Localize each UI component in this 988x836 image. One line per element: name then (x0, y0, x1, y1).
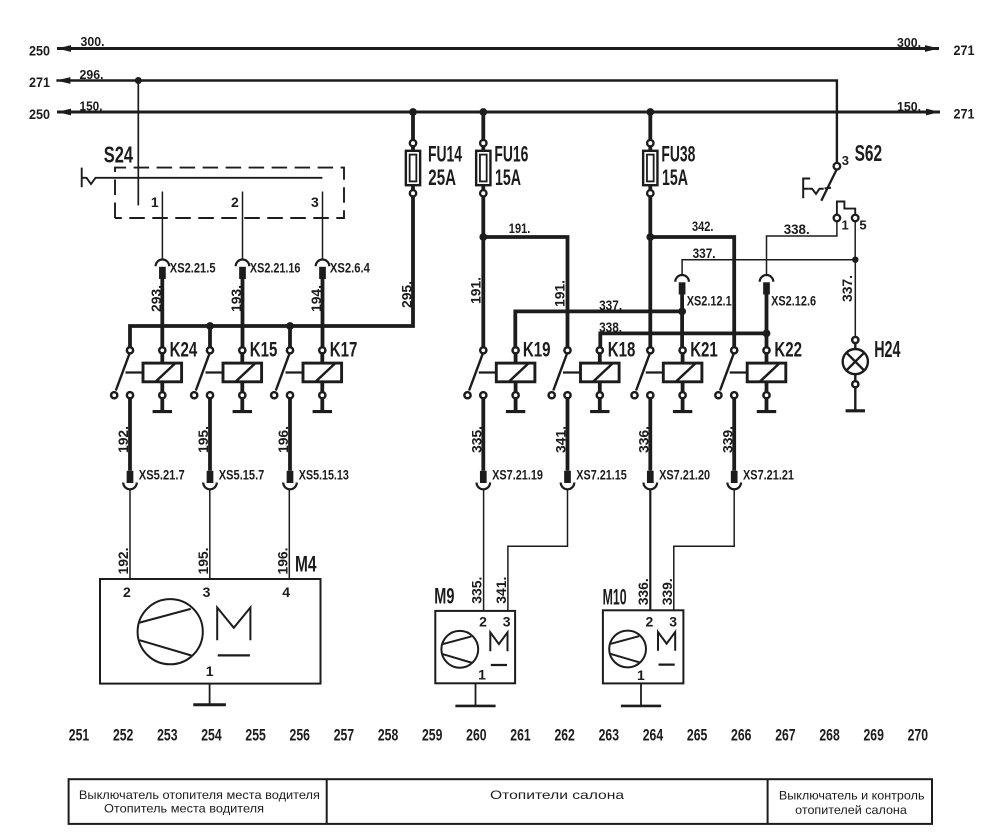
relay K19 (464, 347, 534, 398)
label wire 335. (468, 426, 484, 453)
wire 341 (relay output) (566, 398, 570, 470)
svg-text:S24: S24 (104, 141, 133, 167)
label pin 1 of M4 (206, 663, 214, 679)
switch S62 common bracket (837, 202, 855, 215)
label wire 339. (at M10) (659, 578, 675, 605)
legend cell 3 text (779, 788, 925, 817)
svg-text:K22: K22 (774, 338, 802, 361)
junction 338 bus at XS2.12.6 (763, 330, 771, 338)
svg-text:Выключатель и контроль: Выключатель и контроль (779, 788, 925, 802)
svg-text:335.: 335. (469, 577, 485, 604)
svg-text:300.: 300. (81, 34, 105, 49)
label S24 (104, 141, 133, 167)
svg-text:M4: M4 (295, 552, 317, 577)
svg-text:K15: K15 (250, 338, 278, 361)
svg-text:266: 266 (731, 726, 751, 745)
ground (below M9) (455, 683, 495, 706)
fuse FU16 (476, 112, 490, 197)
label pin 1 of S62 (842, 218, 849, 233)
svg-text:M10: M10 (603, 584, 627, 609)
wire 339 (relay output) (732, 398, 736, 470)
ground (below K22 coil) (757, 398, 776, 411)
label wire 337. (horizontal thin) (693, 246, 716, 261)
svg-text:337.: 337. (693, 246, 716, 261)
svg-text:255: 255 (245, 726, 265, 745)
wire 335 (XS7.21.19 to M9 pin2) (483, 490, 485, 611)
wire 335 (relay output) (481, 398, 485, 470)
label H24 (874, 336, 900, 362)
motor M9 (cabin heater blower) (435, 611, 515, 683)
svg-text:259: 259 (422, 726, 442, 745)
label pin 3 of M9 (503, 614, 511, 630)
ground (below K17 coil) (313, 398, 332, 411)
switch S24 pin 3 (322, 192, 324, 260)
svg-text:Отопители салона: Отопители салона (490, 788, 624, 802)
node scale row 251-270 (69, 726, 928, 745)
label wire 192. (115, 426, 131, 453)
svg-text:XS7.21.15: XS7.21.15 (576, 467, 627, 483)
switch S62 pin 1 terminal (834, 215, 841, 222)
ground (below K21 coil) (673, 398, 692, 411)
svg-text:XS2.21.16: XS2.21.16 (250, 259, 301, 275)
svg-text:196.: 196. (274, 548, 290, 575)
junction FU16/191 (479, 233, 487, 241)
svg-text:264: 264 (643, 726, 664, 745)
label 15A (FU38 rating) (662, 165, 688, 190)
wire bus 296 (net 271 to S62) (56, 77, 837, 163)
ground (below lamp H24) (846, 387, 865, 410)
label wire 337. (vertical at H24) (839, 275, 855, 302)
svg-text:S62: S62 (855, 140, 883, 166)
svg-text:195.: 195. (195, 426, 211, 453)
label S62 (855, 140, 883, 166)
relay K15 (191, 347, 262, 398)
label 271 (left end of bus 296) (29, 74, 50, 90)
svg-text:256: 256 (290, 726, 310, 745)
label M10 (603, 584, 627, 609)
svg-text:2: 2 (646, 614, 654, 630)
label pin 3 of S62 (842, 153, 849, 168)
wire 337 (XS2.12.1 to K19/K21 coils) (515, 295, 682, 348)
label pin 1 of M10 (637, 667, 645, 683)
svg-text:265: 265 (687, 726, 707, 745)
svg-text:XS5.21.7: XS5.21.7 (139, 467, 185, 483)
connector XS2.21.16 (236, 259, 250, 279)
junction on bus 150 at FU16 (479, 108, 487, 116)
wire 196 (XS5.15.13 to M4 pin4) (288, 490, 290, 580)
svg-text:2: 2 (231, 194, 239, 210)
wire 191 branch to K18 contact (483, 237, 567, 347)
label XS5.21.7 (139, 467, 185, 483)
svg-text:341.: 341. (553, 426, 569, 453)
label XS2.21.5 (170, 259, 216, 275)
svg-text:263: 263 (599, 726, 619, 745)
wire 196 (relay output) (288, 398, 292, 470)
label wire number 150. right (897, 99, 921, 114)
label wire 339. (719, 426, 735, 453)
wire 191 (FU16 to K19 contact) (481, 197, 485, 348)
legend table frame (69, 779, 932, 824)
label 271 (right end of bus 300) (954, 42, 975, 58)
wire 195 (relay output) (208, 398, 212, 470)
svg-text:XS5.15.13: XS5.15.13 (299, 467, 349, 483)
connector XS2.6.4 (316, 259, 330, 279)
ground (below M4) (193, 684, 226, 705)
svg-text:267: 267 (775, 726, 795, 745)
switch S24 pin 1 (161, 192, 163, 260)
label M9 (434, 583, 454, 608)
svg-text:268: 268 (819, 726, 839, 745)
label wire 293. (148, 285, 164, 312)
wire feed stub K15 contact (208, 326, 212, 347)
svg-text:262: 262 (554, 726, 574, 745)
label wire 193. (228, 285, 244, 312)
svg-text:XS2.12.1: XS2.12.1 (687, 293, 732, 309)
svg-text:25A: 25A (428, 165, 456, 190)
connector XS7.21.21 (727, 471, 741, 489)
label pin 3 of S24 (311, 194, 319, 210)
label wire 194. (308, 285, 324, 312)
relay K18 (549, 347, 619, 398)
label wire 337. (bus) (599, 298, 622, 313)
label K21 (690, 338, 718, 361)
label wire 196. (at M4) (274, 548, 290, 575)
svg-text:XS7.21.21: XS7.21.21 (743, 467, 794, 483)
switch S24 dashed enclosure (115, 168, 344, 218)
wire feed stub K17 contact (288, 326, 292, 347)
junction on bus 150 at FU38 (646, 108, 654, 116)
label XS2.21.16 (250, 259, 301, 275)
svg-text:270: 270 (908, 726, 928, 745)
ground (below K15 coil) (233, 398, 252, 411)
svg-text:FU14: FU14 (428, 141, 462, 166)
label wire 191. (left vertical) (468, 277, 484, 304)
svg-text:XS2.6.4: XS2.6.4 (330, 259, 370, 275)
label pin 5 of S62 (859, 218, 866, 233)
svg-text:FU16: FU16 (494, 141, 528, 166)
wire 195 (XS5.15.7 to M4 pin3) (209, 490, 211, 580)
label wire 191. (right vertical) (552, 280, 568, 307)
label wire 335. (at M9) (469, 577, 485, 604)
wire bus 150 (net 250-271) (57, 109, 940, 116)
svg-text:269: 269 (864, 726, 884, 745)
svg-text:5: 5 (859, 218, 866, 233)
svg-text:3: 3 (311, 194, 319, 210)
label 15A (FU16 rating) (495, 165, 521, 190)
label K19 (523, 338, 551, 361)
svg-text:2: 2 (123, 584, 131, 600)
label wire 195. (195, 426, 211, 453)
connector XS5.15.13 (283, 471, 297, 490)
svg-text:XS2.12.6: XS2.12.6 (771, 293, 816, 309)
motor M10 (cabin heater blower) (603, 610, 684, 683)
svg-text:300.: 300. (897, 35, 921, 50)
switch S62 pin 5 terminal (852, 215, 859, 222)
svg-text:191.: 191. (468, 277, 484, 304)
svg-text:XS7.21.19: XS7.21.19 (492, 467, 543, 483)
label XS7.21.19 (492, 467, 543, 483)
label wire 195. (at M4) (195, 548, 211, 575)
svg-text:FU38: FU38 (661, 141, 695, 166)
svg-text:296.: 296. (80, 67, 104, 82)
label 25A (FU14 rating) (428, 165, 456, 190)
svg-text:295.: 295. (399, 281, 415, 308)
svg-text:1: 1 (206, 663, 214, 679)
connector XS7.21.19 (477, 471, 491, 490)
connector XS2.12.6 (760, 275, 774, 295)
svg-text:293.: 293. (148, 285, 164, 312)
label wire 341. (at M9) (493, 577, 509, 604)
svg-text:2: 2 (479, 614, 487, 630)
connector XS2.12.1 (675, 275, 689, 295)
motor M4 (driver seat heater blower) (100, 579, 321, 684)
svg-text:3: 3 (503, 614, 511, 630)
label wire 295. (399, 281, 415, 308)
switch S62 actuator symbol F-wave (803, 179, 831, 199)
wire 342 (FU38 to K21 contact) (648, 197, 652, 348)
svg-text:XS7.21.20: XS7.21.20 (659, 467, 710, 483)
label wire 192. (at M4) (115, 548, 131, 575)
legend cell 2 text (490, 788, 624, 802)
svg-text:K19: K19 (523, 338, 551, 361)
svg-text:337.: 337. (839, 275, 855, 302)
connector XS5.21.7 (123, 471, 137, 490)
label XS7.21.15 (576, 467, 627, 483)
ground (below K24 coil) (153, 398, 172, 411)
label wire 196. (275, 426, 291, 453)
svg-text:Выключатель отопителя места во: Выключатель отопителя места водителя (79, 788, 320, 802)
relay K17 (271, 347, 342, 398)
label pin 2 of M4 (123, 584, 131, 600)
wire 293 (S24 pin1 to K24 coil) (160, 279, 164, 347)
wire 341 (XS7.21.15 to M9 pin3) (508, 490, 568, 611)
svg-text:336.: 336. (635, 578, 651, 605)
junction 337 bus at XS2.12.1 (678, 308, 686, 316)
svg-text:339.: 339. (719, 426, 735, 453)
junction 337 net (852, 257, 858, 263)
wire 194 (S24 pin3 to K17 coil) (321, 279, 325, 347)
wire 192 (relay output) (128, 398, 132, 470)
wire 338 (S62 pin1 to XS2.12.6) (767, 221, 837, 275)
svg-text:338.: 338. (599, 320, 622, 335)
ground (below M10) (621, 683, 661, 706)
svg-text:отопителей салона: отопителей салона (795, 803, 907, 817)
fuse FU14 (406, 112, 420, 197)
svg-text:252: 252 (113, 726, 133, 745)
junction FU38/342 (646, 233, 654, 241)
svg-text:195.: 195. (195, 548, 211, 575)
svg-text:4: 4 (282, 584, 290, 600)
svg-text:150.: 150. (80, 98, 103, 113)
svg-text:338.: 338. (784, 222, 810, 237)
label wire 338. (at S62) (784, 222, 810, 237)
svg-text:192.: 192. (115, 426, 131, 453)
label 271 (right end of bus 150) (954, 106, 975, 122)
svg-text:257: 257 (334, 726, 354, 745)
junction bus A at K17 (286, 322, 294, 330)
wire 336 (relay output) (648, 398, 652, 470)
svg-text:254: 254 (201, 726, 222, 745)
label wire number 150. left (80, 98, 103, 113)
svg-text:250: 250 (29, 43, 50, 59)
label XS5.15.7 (219, 467, 265, 483)
svg-text:260: 260 (466, 726, 486, 745)
svg-text:250: 250 (29, 106, 50, 122)
svg-text:XS5.15.7: XS5.15.7 (219, 467, 265, 483)
svg-text:XS2.21.5: XS2.21.5 (170, 259, 216, 275)
svg-text:337.: 337. (599, 298, 622, 313)
relay K22 (715, 347, 785, 398)
svg-text:191.: 191. (509, 221, 531, 236)
lamp H24 (843, 337, 868, 387)
svg-text:271: 271 (954, 106, 975, 122)
svg-text:258: 258 (378, 726, 398, 745)
svg-text:194.: 194. (308, 285, 324, 312)
relay K21 (631, 347, 701, 398)
wire 192 (XS5.21.7 to M4 pin2) (129, 490, 131, 580)
label pin 2 of M10 (646, 614, 654, 630)
label K18 (608, 338, 636, 361)
label FU38 (661, 141, 695, 166)
svg-text:271: 271 (954, 42, 975, 58)
label wire 341. (553, 426, 569, 453)
wire 295 (FU14 to relay feed bus) (130, 197, 413, 348)
label pin 2 of M9 (479, 614, 487, 630)
svg-text:335.: 335. (468, 426, 484, 453)
label XS2.12.6 (771, 293, 816, 309)
switch S24 pin 2 (242, 192, 244, 260)
svg-text:341.: 341. (493, 577, 509, 604)
label wire 336. (at M10) (635, 578, 651, 605)
svg-text:339.: 339. (659, 578, 675, 605)
label XS7.21.20 (659, 467, 710, 483)
svg-text:196.: 196. (275, 426, 291, 453)
junction bus A at K15 (206, 322, 214, 330)
svg-text:1: 1 (842, 218, 849, 233)
label XS5.15.13 (299, 467, 349, 483)
junction on bus 150 at FU14 (409, 108, 417, 116)
wire 339 (XS7.21.21 to M10 pin3) (674, 490, 734, 611)
svg-text:H24: H24 (874, 336, 900, 362)
svg-text:261: 261 (510, 726, 530, 745)
wire 342 branch to K22 contact (650, 237, 734, 347)
wire 338 (XS2.12.6 to K18/K22 coils) (600, 295, 766, 348)
svg-text:1: 1 (151, 194, 159, 210)
svg-text:342.: 342. (692, 219, 714, 234)
label K22 (774, 338, 802, 361)
label K17 (330, 338, 358, 361)
wire 336 (XS7.21.20 to M10 pin2) (649, 490, 651, 611)
label K15 (250, 338, 278, 361)
label XS2.12.1 (687, 293, 732, 309)
fuse FU38 (643, 112, 657, 197)
label FU16 (494, 141, 528, 166)
svg-text:M9: M9 (434, 583, 454, 608)
svg-text:192.: 192. (115, 548, 131, 575)
svg-text:15A: 15A (662, 165, 688, 190)
svg-text:3: 3 (669, 614, 677, 630)
svg-text:K24: K24 (170, 338, 198, 361)
svg-text:336.: 336. (635, 426, 651, 453)
label wire 338. (bus) (599, 320, 622, 335)
switch S62 blade (821, 170, 836, 201)
svg-text:3: 3 (203, 584, 211, 600)
wire 193 (S24 pin2 to K15 coil) (241, 279, 245, 347)
switch S24 actuator bar (82, 168, 323, 188)
svg-text:150.: 150. (897, 99, 921, 114)
svg-text:253: 253 (157, 726, 177, 745)
junction on bus 296 at S24 feed (135, 77, 142, 84)
label 250 (left end of bus 300) (29, 43, 50, 59)
switch S62 pin 3 terminal (834, 163, 841, 170)
svg-text:3: 3 (842, 153, 849, 168)
connector XS2.21.5 (156, 259, 170, 279)
label pin 1 of M9 (478, 666, 486, 682)
svg-text:1: 1 (478, 666, 486, 682)
svg-text:Отопитель места водителя: Отопитель места водителя (104, 802, 264, 816)
wire 337 (S62 pin5 / H24 / XS2.12.1) (682, 221, 855, 337)
connector XS7.21.15 (561, 471, 575, 490)
wire from bus 296 down into S24 (137, 81, 139, 206)
ground (below K18 coil) (590, 398, 609, 411)
label pin 1 of S24 (151, 194, 159, 210)
legend cell 1 text (79, 788, 320, 816)
label pin 3 of M10 (669, 614, 677, 630)
label wire 342. (692, 219, 714, 234)
connector XS7.21.20 (644, 471, 658, 490)
label pin 4 of M4 (282, 584, 290, 600)
label wire number 296. (80, 67, 104, 82)
label wire 191. (horizontal) (509, 221, 531, 236)
ground (below K19 coil) (506, 398, 525, 411)
label wire 336. (635, 426, 651, 453)
label 250 (left end of bus 150) (29, 106, 50, 122)
label M4 (295, 552, 317, 577)
label wire number 300. right (897, 35, 921, 50)
svg-text:191.: 191. (552, 280, 568, 307)
svg-text:K21: K21 (690, 338, 718, 361)
label pin 2 of S24 (231, 194, 239, 210)
svg-text:15A: 15A (495, 165, 521, 190)
label pin 3 of M4 (203, 584, 211, 600)
svg-text:1: 1 (637, 667, 645, 683)
connector XS5.15.7 (203, 471, 217, 490)
wire bus 300 (net 250-271) (57, 45, 939, 52)
label FU14 (428, 141, 462, 166)
svg-text:251: 251 (69, 726, 89, 745)
svg-text:193.: 193. (228, 285, 244, 312)
label XS2.6.4 (330, 259, 370, 275)
svg-text:K17: K17 (330, 338, 358, 361)
label K24 (170, 338, 198, 361)
label XS7.21.21 (743, 467, 794, 483)
svg-text:K18: K18 (608, 338, 636, 361)
label wire number 300. left (81, 34, 105, 49)
relay K24 (111, 347, 182, 398)
svg-text:271: 271 (29, 74, 50, 90)
